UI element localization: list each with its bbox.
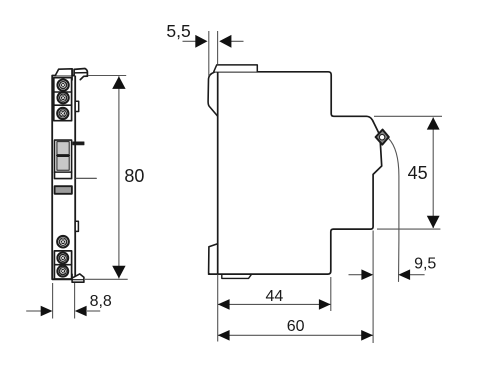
cap right edge segment: [71, 69, 73, 80]
side outline below clip: [209, 142, 382, 274]
dim 80 ext bottom: [85, 278, 128, 280]
bottom clip hook: [72, 274, 84, 282]
label window: [55, 186, 72, 194]
arrow 60 right: [361, 330, 373, 341]
side view main outline: [214, 72, 379, 133]
block top divider 2: [54, 104, 72, 106]
dim 60 line: [218, 334, 373, 336]
mid-height tick line: [76, 177, 97, 179]
svg-text:44: 44: [266, 288, 284, 305]
dim 60 ext left: [217, 275, 219, 342]
dim 44 ext right: [330, 277, 332, 311]
gray block inner bottom line: [55, 171, 72, 173]
right-edge tab lower: [75, 221, 78, 231]
dim 9,5 tail left: [349, 274, 362, 276]
dim 8,8 tail right: [87, 310, 100, 312]
black side bar: [73, 142, 84, 145]
gray cell divider: [57, 155, 69, 157]
dim 5,5 ext line right: [217, 31, 219, 64]
front view body outline: [52, 76, 75, 280]
svg-text:8,8: 8,8: [90, 293, 112, 310]
svg-text:9,5: 9,5: [414, 256, 436, 273]
dim 8,8 tail left: [26, 310, 41, 312]
dim 5,5 tail left: [183, 40, 197, 42]
dim 9,5 tail right: [410, 274, 425, 276]
screw terminals front view: [57, 80, 69, 277]
arrow 45 down: [427, 216, 440, 228]
gray window block frame: [55, 140, 72, 179]
terminal block bottom: [54, 251, 71, 279]
dim 44 line: [218, 303, 331, 305]
top cap strip: [214, 65, 257, 72]
arrow 5,5 right: [219, 35, 231, 48]
dim 45 line: [432, 118, 434, 229]
clip pivot hole: [379, 135, 384, 140]
bottom front nose: [209, 244, 218, 274]
arrow 60 left: [218, 330, 230, 341]
dim 8,8 ext left: [52, 283, 54, 319]
dim 80 ext top: [88, 75, 126, 77]
arrow 8,8 right: [75, 306, 87, 317]
screw 2: [58, 92, 69, 103]
dim 45 ext top: [374, 115, 442, 117]
clip flag inner edge: [74, 72, 87, 74]
block top divider 1: [54, 91, 72, 93]
screw 6: [57, 266, 68, 277]
arrow 44 right: [319, 299, 331, 310]
dim 45 ext bottom: [377, 228, 440, 230]
dim 80 line: [118, 76, 120, 278]
gray cell upper: [57, 142, 69, 155]
top front nose: [208, 72, 217, 116]
dim 9,5 ext line: [372, 231, 374, 344]
screw 5: [57, 253, 68, 264]
clip pivot diamond: [376, 130, 389, 145]
arrow 8,8 left: [41, 306, 53, 317]
dim 8,8 ext right: [74, 283, 76, 319]
screw 4: [57, 236, 69, 248]
svg-text:80: 80: [124, 166, 144, 186]
dim 5,5 tail right: [221, 40, 244, 42]
arrow 80 down: [112, 266, 125, 279]
right-edge tab upper: [75, 101, 79, 111]
arrowheads: [41, 35, 440, 341]
dim 5,5 ext line left: [208, 31, 210, 76]
arrow 9,5 right: [398, 269, 410, 280]
front face line: [217, 72, 219, 274]
terminal block top: [54, 78, 72, 121]
bottom cap strip: [222, 274, 252, 278]
screw 1: [58, 80, 69, 91]
svg-text:5,5: 5,5: [166, 21, 190, 41]
bottom clip hook inner line: [72, 279, 84, 281]
svg-text:60: 60: [287, 318, 305, 335]
dimension labels: [90, 21, 437, 335]
top-right clip flag: [74, 69, 87, 77]
block bottom divider: [54, 264, 71, 266]
screw 3: [57, 108, 68, 119]
clip lever arc: [388, 138, 399, 281]
arrow 80 up: [112, 76, 125, 89]
arrow 5,5 left: [195, 35, 207, 48]
gray cell lower: [57, 157, 69, 171]
arrow 9,5 left: [361, 269, 373, 280]
top cap trapezoid: [55, 69, 72, 76]
arrow 44 left: [218, 299, 230, 310]
arrow 45 up: [427, 117, 440, 129]
clip flag beak: [80, 76, 87, 80]
svg-text:45: 45: [408, 163, 428, 183]
